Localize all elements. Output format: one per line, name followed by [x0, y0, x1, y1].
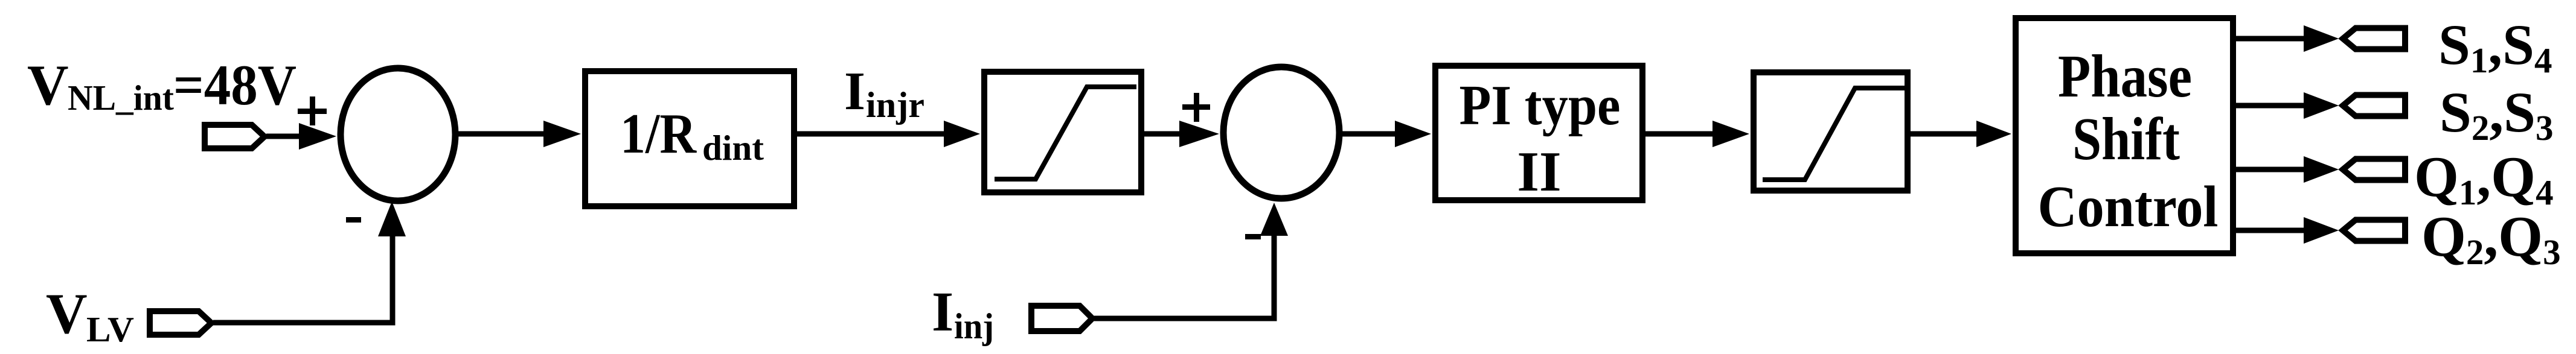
minus sign sum2 [1245, 234, 1261, 239]
svg-text:PI type: PI type [1459, 74, 1621, 137]
plus sign sum2 [1182, 93, 1210, 122]
wire SUM2 to PI block [1339, 121, 1431, 147]
svg-text:Shift: Shift [2072, 105, 2180, 172]
summing junction SUM2 [1223, 67, 1339, 198]
minus sign sum1 [346, 217, 361, 223]
label Q2,Q3 [2421, 204, 2561, 272]
wire SAT1 to SUM2 [1144, 121, 1219, 147]
svg-text:Q2,Q3: Q2,Q3 [2421, 204, 2561, 272]
label Iinj [932, 281, 994, 346]
plus sign sum1 [298, 96, 327, 125]
output port Q1,Q4 [2343, 159, 2405, 180]
output port Q2,Q3 [2343, 220, 2405, 241]
svg-text:I: I [844, 62, 865, 121]
wire output S2,S3 [2233, 92, 2339, 119]
wire SUM1 to block 1/Rdint [457, 121, 581, 147]
label S1,S4 [2438, 13, 2552, 80]
svg-text:dint: dint [702, 128, 764, 168]
svg-text:II: II [1517, 141, 1561, 203]
svg-text:inj: inj [954, 306, 994, 346]
svg-text:I: I [932, 281, 953, 343]
output port S2,S3 [2343, 95, 2405, 116]
svg-text:S1,S4: S1,S4 [2438, 13, 2552, 80]
svg-text:Phase: Phase [2058, 42, 2192, 110]
wire 1/Rdint to SAT1 [797, 121, 980, 147]
input port VLV [150, 311, 211, 335]
wire output S1,S4 [2233, 25, 2339, 52]
label VLV [46, 282, 134, 349]
saturation block SAT1 [984, 72, 1141, 192]
input port Iinj [1031, 306, 1092, 331]
output port S1,S4 [2343, 28, 2405, 49]
block 1/Rdint [585, 71, 794, 206]
label Iinjr [844, 62, 924, 125]
svg-text:1/R: 1/R [620, 103, 697, 165]
svg-text:NL_int: NL_int [68, 78, 174, 118]
input port VNL_int [205, 125, 264, 148]
wire output Q1,Q4 [2233, 156, 2339, 183]
label S2,S3 [2440, 80, 2553, 148]
svg-text:injr: injr [866, 85, 924, 125]
svg-text:V: V [27, 53, 69, 117]
svg-text:Q1,Q4: Q1,Q4 [2414, 145, 2554, 212]
wire SAT2 to Phase Shift Control [1911, 121, 2011, 147]
wire VLV feedback into SUM1 [213, 201, 406, 323]
svg-text:S2,S3: S2,S3 [2440, 80, 2553, 148]
wire Iinj feedback into SUM2 [1094, 203, 1288, 318]
saturation block SAT2 [1754, 72, 1908, 191]
wire PI to SAT2 [1645, 121, 1749, 147]
wire VNL to SUM1 [266, 123, 336, 150]
svg-text:Control: Control [2038, 174, 2219, 239]
summing junction SUM1 [341, 68, 455, 201]
block PI type II [1435, 66, 1642, 203]
svg-text:V: V [46, 282, 88, 346]
label Q1,Q4 [2414, 145, 2554, 212]
label VNL_int=48V [27, 53, 296, 118]
wire output Q2,Q3 [2233, 217, 2339, 244]
svg-text:LV: LV [86, 309, 134, 349]
block Phase Shift Control [2016, 18, 2233, 253]
svg-text:=48V: =48V [173, 53, 296, 117]
